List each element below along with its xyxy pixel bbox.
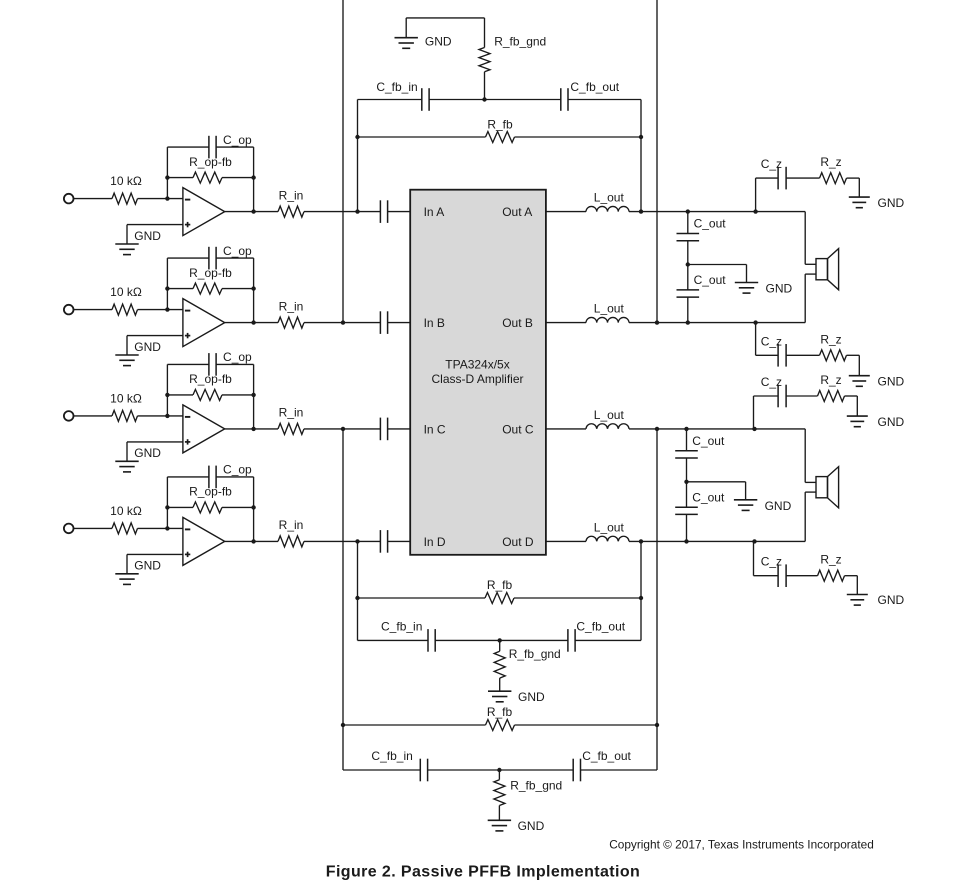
label 10 kΩ (ch A)	[110, 174, 142, 188]
capacitor input coupling (ch A)	[380, 200, 387, 223]
svg-text:R_fb_gnd: R_fb_gnd	[509, 647, 561, 661]
wire input cap to IC (ch A)	[388, 211, 411, 213]
wire non-inverting input (ch C)	[127, 442, 183, 461]
label GND (top feedback net)	[425, 35, 452, 49]
label C_fb_in (top net)	[376, 80, 417, 94]
label C_out upper (spk C/D)	[692, 434, 725, 448]
label R_fb (top net)	[487, 118, 513, 132]
wire C_fb row (top net)	[358, 99, 642, 101]
op-amp UC triangle	[183, 405, 225, 453]
wire op-amp output (ch C)	[225, 428, 278, 430]
svg-text:Out C: Out C	[502, 422, 534, 436]
label GND (Zobel C)	[878, 415, 905, 429]
svg-text:C_fb_out: C_fb_out	[582, 749, 631, 763]
svg-text:GND: GND	[878, 415, 905, 429]
node inverting input (ch D)	[165, 526, 169, 530]
label C_fb_in (net D)	[381, 619, 422, 633]
pin label In C	[424, 422, 446, 436]
svg-text:L_out: L_out	[594, 191, 625, 205]
capacitor C_z (ch A)	[778, 167, 786, 190]
node op-amp output (ch B)	[251, 320, 255, 324]
wire op-amp output (ch A)	[225, 211, 278, 213]
node center tap (net C)	[497, 768, 501, 772]
wire Zobel vertical (ch C)	[753, 396, 755, 429]
capacitor C_z (ch C)	[778, 385, 786, 408]
node center tap (top net)	[482, 97, 486, 101]
resistor R_op-fb (ch A)	[193, 172, 222, 183]
svg-text:R_fb_gnd: R_fb_gnd	[510, 778, 562, 792]
wire C_out mid to GND (spk C/D)	[687, 482, 746, 500]
wire feedback left vertical (ch D)	[357, 541, 359, 640]
wire C_op row (ch B)	[167, 257, 253, 259]
node center tap (net D)	[498, 638, 502, 642]
label L_out (ch D)	[594, 520, 625, 534]
label C_fb_in (net C)	[371, 749, 412, 763]
input terminal (ch D)	[64, 524, 74, 534]
label 10 kΩ (ch D)	[110, 504, 142, 518]
wire to op-amp inverting input (ch D)	[138, 527, 183, 529]
svg-text:C_fb_in: C_fb_in	[381, 619, 422, 633]
op-amp UD triangle	[183, 517, 225, 565]
wire Out B to inductor	[546, 322, 586, 324]
node feedback right (op-amp C)	[251, 393, 255, 397]
wire inductor to speaker (ch A)	[629, 211, 805, 213]
wire C_out chain bottom (spk C/D)	[686, 514, 688, 541]
svg-text:R_op-fb: R_op-fb	[189, 372, 232, 386]
capacitor C_op (ch C)	[209, 353, 216, 376]
wire feedback right vertical (ch D)	[640, 541, 642, 640]
resistor R_fb_gnd (net D)	[494, 640, 505, 691]
node feedback tap In A	[355, 209, 359, 213]
capacitor C_fb_out (net C)	[573, 759, 580, 782]
label C_op (ch B)	[223, 244, 252, 258]
label R_z (ch B)	[820, 332, 841, 346]
node R_fb right (net D)	[639, 596, 643, 600]
node feedback left (op-amp C)	[165, 393, 169, 397]
node R_fb right (net C)	[655, 723, 659, 727]
label R_fb_gnd (top net)	[494, 35, 546, 49]
svg-text:R_in: R_in	[279, 406, 304, 420]
resistor R_z (ch B)	[820, 350, 847, 361]
wire C_op row (ch A)	[167, 146, 253, 148]
wire top feedback to GND	[406, 17, 484, 19]
svg-text:C_fb_in: C_fb_in	[371, 749, 412, 763]
wire R_fb row (net D)	[358, 597, 642, 599]
wire input cap to IC (ch B)	[388, 322, 411, 324]
capacitor C_op (ch D)	[209, 466, 216, 489]
svg-text:Out D: Out D	[502, 535, 534, 549]
resistor R_in (ch D)	[278, 536, 304, 547]
svg-text:R_z: R_z	[820, 553, 841, 567]
resistor R_fb (net C)	[486, 720, 515, 731]
svg-text:L_out: L_out	[594, 520, 625, 534]
wire C_op row (ch D)	[167, 476, 253, 478]
node R_fb left (net D)	[355, 596, 359, 600]
svg-text:GND: GND	[766, 282, 793, 296]
svg-text:C_z: C_z	[761, 375, 782, 389]
node inverting input (ch C)	[165, 414, 169, 418]
svg-text:R_op-fb: R_op-fb	[189, 266, 232, 280]
svg-text:R_op-fb: R_op-fb	[189, 155, 232, 169]
wire C_out chain upper (spk C/D)	[686, 429, 688, 451]
svg-text:GND: GND	[878, 374, 905, 388]
wire input (ch D)	[74, 527, 112, 529]
node Zobel tap (ch D)	[752, 539, 756, 543]
node feedback tap Out C	[655, 427, 659, 431]
wire R_in to input cap (ch B)	[304, 322, 380, 324]
wire non-inverting input (ch D)	[127, 554, 183, 573]
resistor R_op-fb (ch C)	[193, 389, 222, 400]
svg-text:GND: GND	[425, 35, 452, 49]
svg-text:L_out: L_out	[594, 302, 625, 316]
op-amp UC minus sign	[185, 416, 190, 418]
label C_out lower (spk C/D)	[692, 490, 725, 504]
node R_fb right (top net)	[639, 135, 643, 139]
svg-text:In B: In B	[424, 316, 445, 330]
pin label In D	[424, 535, 446, 549]
resistor R_in (ch C)	[278, 423, 304, 434]
svg-text:GND: GND	[878, 196, 905, 210]
svg-text:GND: GND	[134, 446, 161, 460]
wire Zobel row (ch C)	[754, 396, 858, 416]
inductor L_out (ch B)	[586, 317, 629, 322]
svg-text:10 kΩ: 10 kΩ	[110, 285, 142, 299]
wire feedback right vertical (ch A)	[640, 100, 642, 212]
svg-text:In A: In A	[424, 205, 445, 219]
wire R_op-fb row (ch C)	[167, 394, 253, 396]
svg-text:10 kΩ: 10 kΩ	[110, 174, 142, 188]
label R_op-fb (ch A)	[189, 155, 232, 169]
wire Zobel row (ch B)	[756, 355, 860, 375]
capacitor input coupling (ch C)	[380, 418, 387, 441]
capacitor C_op (ch A)	[209, 136, 216, 159]
inductor L_out (ch D)	[586, 536, 629, 541]
svg-text:GND: GND	[518, 690, 545, 704]
node feedback left (op-amp A)	[165, 175, 169, 179]
capacitor C_z (ch D)	[778, 564, 786, 587]
op-amp UD minus sign	[185, 528, 190, 530]
node feedback tap In D	[355, 539, 359, 543]
label R_in (ch C)	[279, 406, 304, 420]
speaker (spk A/B)	[816, 249, 839, 290]
ground (Zobel A)	[849, 197, 870, 208]
pin label In A	[424, 205, 445, 219]
resistor R_in (ch B)	[278, 317, 304, 328]
resistor 10 kΩ (ch B)	[112, 304, 138, 315]
resistor 10 kΩ (ch A)	[112, 193, 138, 204]
svg-text:C_z: C_z	[761, 157, 782, 171]
svg-text:C_fb_out: C_fb_out	[570, 80, 619, 94]
wire to op-amp inverting input (ch B)	[138, 309, 183, 311]
pin label Out B	[502, 316, 533, 330]
svg-text:R_in: R_in	[279, 299, 304, 313]
wire input (ch C)	[74, 415, 112, 417]
wire inductor to speaker (ch D)	[629, 540, 805, 542]
svg-text:GND: GND	[134, 340, 161, 354]
svg-text:10 kΩ: 10 kΩ	[110, 392, 142, 406]
label R_fb (net C)	[487, 705, 513, 719]
label C_z (ch C)	[761, 375, 782, 389]
wire to op-amp inverting input (ch C)	[138, 415, 183, 417]
svg-text:C_z: C_z	[761, 555, 782, 569]
wire inductor to speaker (ch C)	[629, 428, 805, 430]
ground (Zobel B)	[849, 376, 870, 387]
svg-text:GND: GND	[134, 559, 161, 573]
capacitor C_fb_in (top net)	[422, 88, 429, 111]
op-amp UA triangle	[183, 188, 225, 236]
wire R_fb row (top net)	[358, 136, 642, 138]
label GND (Zobel D)	[878, 593, 905, 607]
wire R_in to input cap (ch A)	[304, 211, 380, 213]
resistor R_fb (net D)	[485, 593, 514, 604]
input terminal (ch C)	[64, 411, 74, 421]
label R_op-fb (ch C)	[189, 372, 232, 386]
wire input (ch A)	[74, 198, 112, 200]
label GND (net D)	[518, 690, 545, 704]
wire op-amp output (ch B)	[225, 322, 278, 324]
label 10 kΩ (ch C)	[110, 392, 142, 406]
node C_out tap (ch C)	[684, 427, 688, 431]
svg-text:R_fb: R_fb	[487, 578, 513, 592]
label C_op (ch C)	[223, 350, 252, 364]
svg-text:C_out: C_out	[694, 273, 727, 287]
node C_out tap (ch A)	[686, 209, 690, 213]
svg-text:GND: GND	[878, 593, 905, 607]
svg-text:GND: GND	[518, 819, 545, 833]
ground (op-amp B)	[115, 355, 138, 366]
capacitor C_out upper (spk A/B)	[677, 234, 700, 241]
resistor R_z (ch D)	[818, 570, 845, 581]
resistor R_z (ch A)	[820, 173, 847, 184]
ground (net C)	[488, 820, 511, 831]
wire C_out chain bottom (spk A/B)	[687, 297, 689, 323]
wire Zobel vertical (ch D)	[753, 541, 755, 575]
label GND (C_out mid, spk A/B)	[766, 282, 793, 296]
svg-text:R_z: R_z	[820, 373, 841, 387]
wire feedback right vertical (op-amp B)	[253, 258, 255, 323]
resistor R_op-fb (ch D)	[193, 502, 222, 513]
node Zobel tap (ch A)	[753, 209, 757, 213]
label R_in (ch D)	[279, 518, 304, 532]
svg-text:C_op: C_op	[223, 350, 252, 364]
capacitor C_out upper (spk C/D)	[675, 451, 698, 458]
ground (net D)	[488, 691, 511, 702]
capacitor C_out lower (spk C/D)	[675, 507, 698, 514]
label R_z (ch A)	[820, 155, 841, 169]
wire R_fb row (net C)	[343, 724, 657, 726]
svg-text:Figure 2. Passive PFFB Impleme: Figure 2. Passive PFFB Implementation	[326, 863, 640, 880]
svg-text:TPA324x/5x: TPA324x/5x	[445, 357, 509, 371]
svg-text:R_in: R_in	[279, 188, 304, 202]
ground (Zobel C)	[847, 416, 868, 427]
label C_fb_out (net D)	[576, 619, 625, 633]
resistor R_fb (top net)	[486, 132, 515, 143]
capacitor C_out lower (spk A/B)	[677, 290, 700, 297]
pin label Out D	[502, 535, 534, 549]
capacitor C_fb_in (net C)	[420, 759, 427, 782]
wire non-inverting input (ch B)	[127, 336, 183, 355]
label R_fb (net D)	[487, 578, 513, 592]
label C_out lower (spk A/B)	[694, 273, 727, 287]
wire R_op-fb row (ch B)	[167, 288, 253, 290]
label C_z (ch D)	[761, 555, 782, 569]
wire Out A to inductor	[546, 211, 586, 213]
label GND (op-amp A)	[134, 229, 161, 243]
label GND (Zobel B)	[878, 374, 905, 388]
wire Zobel row (ch D)	[754, 576, 858, 595]
label R_fb_gnd (net D)	[509, 647, 561, 661]
svg-text:C_op: C_op	[223, 133, 252, 147]
wire input cap to IC (ch D)	[388, 540, 411, 542]
label L_out (ch A)	[594, 191, 625, 205]
svg-text:C_fb_in: C_fb_in	[376, 80, 417, 94]
op-amp UB minus sign	[185, 310, 190, 312]
wire op-amp output (ch D)	[225, 540, 278, 542]
svg-text:C_fb_out: C_fb_out	[576, 619, 625, 633]
label C_out upper (spk A/B)	[694, 217, 727, 231]
wire Zobel row (ch A)	[756, 178, 860, 197]
input terminal (ch A)	[64, 194, 74, 204]
wire feedback output vertical (ch C)	[656, 429, 658, 770]
op-amp UB plus sign	[185, 333, 190, 338]
label C_op (ch A)	[223, 133, 252, 147]
label GND (op-amp C)	[134, 446, 161, 460]
resistor R_op-fb (ch B)	[193, 283, 222, 294]
wire Out D to inductor	[546, 540, 586, 542]
wire inductor to speaker (ch B)	[629, 322, 805, 324]
wire feedback left vertical (op-amp D)	[166, 477, 168, 529]
svg-text:Out B: Out B	[502, 316, 533, 330]
wire C_out chain lower (spk C/D)	[686, 482, 688, 507]
label Class-D Amplifier	[431, 372, 523, 386]
capacitor C_z (ch B)	[778, 344, 786, 367]
op-amp UB triangle	[183, 299, 225, 347]
wire C_out chain lower (spk A/B)	[687, 265, 689, 290]
wire input (ch B)	[74, 309, 112, 311]
wire C_out mid to GND (spk A/B)	[688, 265, 747, 283]
pin label In B	[424, 316, 445, 330]
node feedback left (op-amp B)	[165, 286, 169, 290]
pin label Out A	[502, 205, 532, 219]
node feedback right (op-amp B)	[251, 286, 255, 290]
label R_op-fb (ch B)	[189, 266, 232, 280]
wire C_op row (ch C)	[167, 363, 253, 365]
wire feedback input vertical (ch C)	[342, 429, 344, 770]
ground (C_out mid, spk C/D)	[734, 500, 757, 511]
wire R_op-fb row (ch D)	[167, 506, 253, 508]
svg-text:GND: GND	[765, 499, 792, 513]
op-amp IC TPA324x/5x Class-D Amplifier block	[410, 190, 546, 555]
wire speaker top lead (spk C/D)	[805, 429, 816, 483]
label C_fb_out (net C)	[582, 749, 631, 763]
wire to op-amp inverting input (ch A)	[138, 198, 183, 200]
wire Zobel vertical (ch B)	[755, 323, 757, 356]
label GND (op-amp B)	[134, 340, 161, 354]
op-amp UC plus sign	[185, 439, 190, 444]
svg-text:Copyright © 2017, Texas Instru: Copyright © 2017, Texas Instruments Inco…	[609, 838, 874, 852]
wire Zobel vertical (ch A)	[755, 178, 757, 212]
wire C_fb row (net D)	[358, 639, 642, 641]
ground (op-amp A)	[115, 244, 138, 255]
capacitor input coupling (ch B)	[380, 311, 387, 334]
wire R_in to input cap (ch D)	[304, 540, 380, 542]
node inverting input (ch A)	[165, 196, 169, 200]
svg-text:10 kΩ: 10 kΩ	[110, 504, 142, 518]
wire input cap to IC (ch C)	[388, 428, 411, 430]
svg-text:In D: In D	[424, 535, 446, 549]
ground (op-amp C)	[115, 461, 138, 472]
inductor L_out (ch A)	[586, 206, 629, 211]
resistor R_z (ch C)	[818, 391, 845, 402]
svg-text:C_op: C_op	[223, 244, 252, 258]
label R_z (ch C)	[820, 373, 841, 387]
label copyright	[609, 838, 874, 852]
node C_out tap (ch B)	[686, 320, 690, 324]
label R_z (ch D)	[820, 553, 841, 567]
wire feedback right vertical (op-amp A)	[253, 147, 255, 212]
resistor R_fb_gnd (top net)	[479, 18, 490, 100]
label TPA324x/5x	[445, 357, 509, 371]
label GND (net C)	[518, 819, 545, 833]
node inverting input (ch B)	[165, 307, 169, 311]
node C_out midpoint (spk A/B)	[686, 262, 690, 266]
node feedback tap In B	[341, 320, 345, 324]
node R_fb left (net C)	[341, 723, 345, 727]
svg-text:R_z: R_z	[820, 155, 841, 169]
ground (op-amp D)	[115, 574, 138, 585]
capacitor C_fb_out (top net)	[561, 88, 568, 111]
pin label Out C	[502, 422, 534, 436]
svg-text:R_z: R_z	[820, 332, 841, 346]
node C_out midpoint (spk C/D)	[684, 480, 688, 484]
label GND (C_out mid, spk C/D)	[765, 499, 792, 513]
speaker (spk C/D)	[816, 467, 839, 508]
op-amp UA plus sign	[185, 222, 190, 227]
node feedback tap In C	[341, 427, 345, 431]
wire non-inverting input (ch A)	[127, 225, 183, 244]
capacitor C_fb_out (net D)	[568, 629, 575, 652]
wire feedback left vertical (op-amp C)	[166, 364, 168, 416]
ground (top feedback net)	[395, 18, 418, 48]
node feedback tap Out B	[655, 320, 659, 324]
wire C_out chain middle (spk C/D)	[686, 458, 688, 482]
ground (C_out mid, spk A/B)	[735, 283, 758, 294]
label C_op (ch D)	[223, 463, 252, 477]
resistor 10 kΩ (ch C)	[112, 410, 138, 421]
label R_in (ch B)	[279, 299, 304, 313]
label GND (op-amp D)	[134, 559, 161, 573]
node C_out tap (ch D)	[684, 539, 688, 543]
wire feedback output vertical (ch B)	[656, 0, 658, 323]
wire R_op-fb row (ch A)	[167, 177, 253, 179]
svg-text:Out A: Out A	[502, 205, 532, 219]
ground (Zobel D)	[847, 595, 868, 606]
node feedback tap Out A	[639, 209, 643, 213]
node feedback right (op-amp A)	[251, 175, 255, 179]
wire Out C to inductor	[546, 428, 586, 430]
label R_in (ch A)	[279, 188, 304, 202]
node feedback left (op-amp D)	[165, 505, 169, 509]
resistor 10 kΩ (ch D)	[112, 523, 138, 534]
wire R_in to input cap (ch C)	[304, 428, 380, 430]
svg-text:R_fb: R_fb	[487, 705, 513, 719]
label C_z (ch A)	[761, 157, 782, 171]
wire feedback right vertical (op-amp D)	[253, 477, 255, 542]
op-amp UD plus sign	[185, 552, 190, 557]
node Zobel tap (ch C)	[752, 427, 756, 431]
svg-text:R_op-fb: R_op-fb	[189, 485, 232, 499]
svg-text:C_out: C_out	[692, 490, 725, 504]
